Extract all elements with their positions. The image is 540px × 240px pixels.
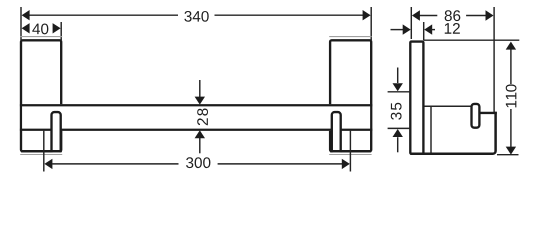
dimension line 300 xyxy=(44,159,349,169)
dimension 28 (vertical, middle) xyxy=(195,80,205,153)
top arm line / extension (110 top) xyxy=(423,39,519,41)
extension line bottom (35) xyxy=(388,127,411,129)
faint edge line below bracket left xyxy=(20,154,62,156)
wall plate (side view) xyxy=(410,42,423,154)
hook (side view) xyxy=(472,104,480,128)
label 340 xyxy=(184,11,208,22)
extension line right of 40 xyxy=(60,22,62,40)
bar top line (side view, thin) xyxy=(425,105,481,107)
dimension arrows 40 xyxy=(22,23,61,33)
label 28 (rotated) xyxy=(197,108,208,125)
extension line right (12) xyxy=(423,22,425,40)
extension line left (340/40) xyxy=(20,7,22,40)
dimension 110 (vertical right) xyxy=(506,42,516,155)
faint edge line below bracket right xyxy=(329,154,371,156)
dimension 12 (outside arrows) xyxy=(391,24,436,34)
extension line right (86) / profile rear edge xyxy=(493,7,495,112)
faint edge line above bracket left xyxy=(20,36,62,38)
dimension line 86 xyxy=(412,10,494,20)
extension line top (35) xyxy=(388,91,411,93)
inner vertical line (side view) xyxy=(430,107,432,153)
label 40 xyxy=(32,23,48,34)
extension line bottom (110) xyxy=(497,154,519,156)
bracket left (front view) xyxy=(21,40,61,151)
extension line right (340) xyxy=(370,7,372,40)
hook right (front view) xyxy=(332,112,341,152)
faint edge line above bracket right xyxy=(329,36,371,38)
bracket right (front view) xyxy=(330,40,371,151)
dimension 35 (outside arrows) xyxy=(393,68,403,153)
label 12 xyxy=(445,23,460,34)
bracket right bottom edge (redrawn over hook) xyxy=(330,150,371,152)
label 35 (rotated) xyxy=(391,103,402,120)
label 86 xyxy=(445,10,461,21)
towel bar (front view) xyxy=(20,104,372,131)
extension line left (86) xyxy=(410,7,412,39)
bracket left bottom edge (redrawn over hook) xyxy=(21,150,61,152)
label 300 xyxy=(186,157,210,168)
bar top line right segment (thick) xyxy=(480,112,496,114)
extension line right (300) xyxy=(349,131,351,172)
hook left (front view) xyxy=(52,112,61,152)
dimension line 340 xyxy=(22,10,371,20)
profile outer right edge and bottom (thick, rounded corner) xyxy=(410,112,495,154)
label 110 (rotated) xyxy=(506,84,517,107)
extension line left (300) xyxy=(43,131,45,172)
